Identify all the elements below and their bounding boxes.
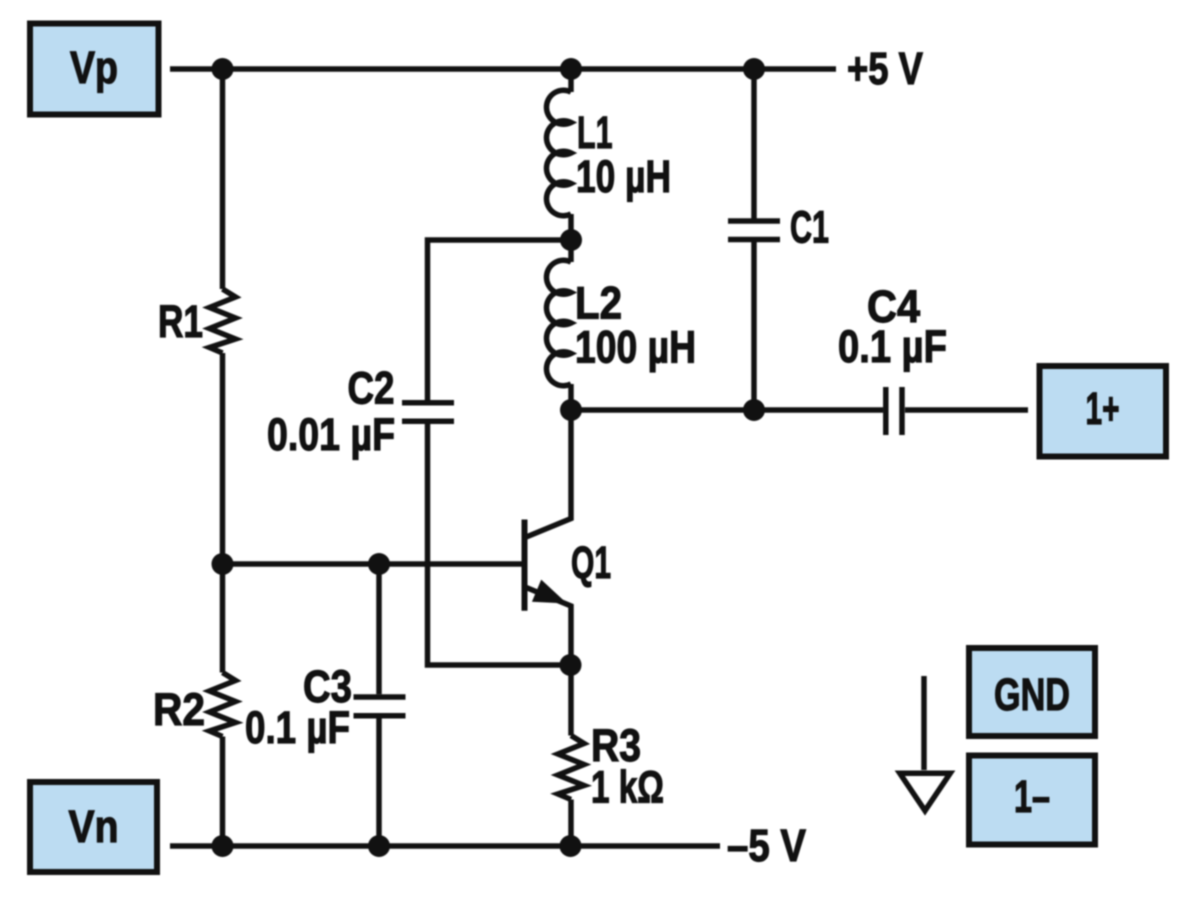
capacitor C2 <box>402 403 454 422</box>
node top rail / L1 <box>560 58 582 80</box>
wire top rail +5V <box>170 66 836 72</box>
node base row R1 <box>212 553 234 575</box>
wire L1 top stub <box>568 69 574 92</box>
svg-text:Vn: Vn <box>69 801 119 852</box>
wire C2 top horizontal <box>428 240 572 400</box>
node output L2 <box>560 399 582 421</box>
terminal box Vn <box>30 782 157 872</box>
capacitor C1 <box>728 221 780 240</box>
svg-text:1+: 1+ <box>1086 383 1120 434</box>
wire C3 lower <box>376 719 382 847</box>
svg-text:+5 V: +5 V <box>847 43 923 94</box>
wire R1 to base row to R2 <box>220 353 226 673</box>
node output C1 <box>743 399 765 421</box>
resistor R1 <box>210 289 236 353</box>
wire C1 lower <box>751 242 757 410</box>
wire R1 column upper <box>220 69 226 289</box>
node L1-L2 junction <box>560 229 582 251</box>
wire C4 to 1+ box <box>905 407 1028 413</box>
capacitor C3 <box>354 697 406 716</box>
ground symbol triangle <box>900 773 950 810</box>
terminal box GND <box>969 648 1095 736</box>
wire C2 bottom to emitter row <box>428 424 569 665</box>
wire L1 to node <box>568 214 574 262</box>
resistor R3 <box>568 665 574 736</box>
wire L2 to output row <box>568 384 574 410</box>
svg-text:–5 V: –5 V <box>727 820 806 871</box>
svg-text:1 kΩ: 1 kΩ <box>591 762 664 813</box>
capacitor C4 <box>886 387 902 435</box>
wire output row <box>571 407 883 413</box>
svg-text:R2: R2 <box>153 684 205 735</box>
inductor L1 <box>546 90 571 215</box>
resistor R2 <box>210 673 236 737</box>
node bottom rail R2 <box>212 835 234 857</box>
wire C1 column upper <box>751 69 757 219</box>
svg-text:Vp: Vp <box>70 42 118 93</box>
node emitter row <box>560 654 582 676</box>
svg-text:0.01 µF: 0.01 µF <box>267 409 395 460</box>
node bottom rail R3 <box>560 835 582 857</box>
svg-text:0.1 µF: 0.1 µF <box>838 321 947 372</box>
terminal box 1- <box>969 756 1095 845</box>
svg-text:Q1: Q1 <box>571 537 611 588</box>
node top rail / C1 <box>743 58 765 80</box>
svg-text:100 µH: 100 µH <box>575 322 696 373</box>
wire R2 to bottom rail <box>220 737 226 847</box>
transistor Q1 emitter arrow <box>532 580 572 615</box>
svg-text:R1: R1 <box>158 296 203 347</box>
ground symbol line <box>921 676 927 770</box>
transistor Q1 <box>522 520 528 611</box>
svg-text:1–: 1– <box>1014 771 1050 822</box>
svg-text:10 µH: 10 µH <box>576 151 671 202</box>
node Vp rail / R1 <box>212 58 234 80</box>
svg-text:GND: GND <box>994 669 1070 720</box>
wire C3 upper <box>376 564 382 694</box>
svg-text:C1: C1 <box>790 202 829 253</box>
node base row C3 <box>368 553 390 575</box>
wire base row <box>223 561 522 567</box>
node bottom rail C3 <box>368 835 390 857</box>
wire bottom rail -5V <box>170 843 720 849</box>
terminal box 1+ <box>1040 366 1167 457</box>
inductor L2 <box>546 260 571 386</box>
svg-text:C2: C2 <box>348 363 395 414</box>
terminal box Vp <box>30 24 159 115</box>
svg-text:0.1 µF: 0.1 µF <box>245 702 350 753</box>
